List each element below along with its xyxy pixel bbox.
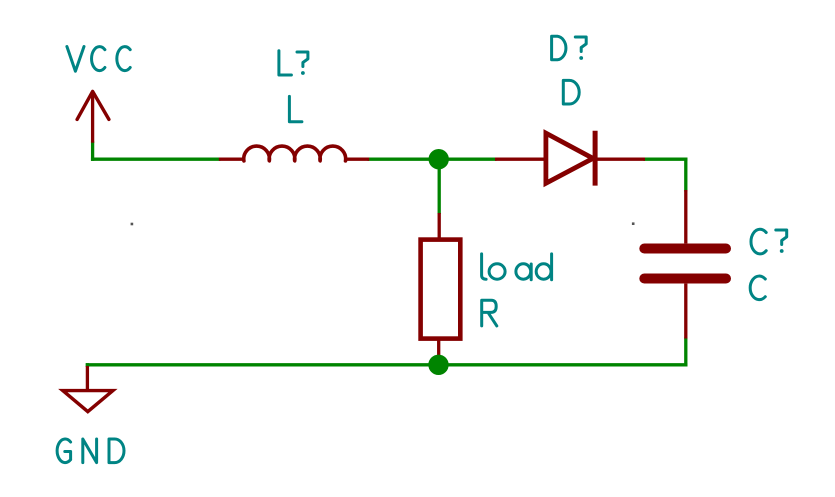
net label GND [57, 439, 124, 463]
resistor load/R pin 2 (bottom) [437, 337, 440, 365]
label D (value) [563, 80, 579, 104]
label C (value) [750, 276, 765, 300]
resistor load/R body [421, 240, 461, 339]
inductor L? coil [244, 146, 346, 161]
junction node bottom [428, 355, 448, 375]
anchor mark right [632, 222, 635, 225]
wire [684, 338, 687, 367]
wire [86, 363, 688, 366]
capacitor C? pin 2 (bottom) [684, 284, 687, 339]
label C? (reference) [751, 229, 787, 254]
wire [91, 142, 94, 161]
diode D? pin 2 (cathode side) [595, 158, 645, 161]
diode D? triangle [546, 133, 593, 183]
label D? (reference) [552, 36, 587, 60]
power symbol GND [63, 366, 113, 412]
wire [644, 158, 688, 161]
wire [368, 158, 497, 161]
net label VCC [67, 47, 130, 72]
anchor mark left [131, 223, 134, 226]
inductor L? pin 2 [346, 158, 370, 161]
label R (value) [482, 300, 497, 326]
label L? (reference) [279, 51, 308, 75]
label L (value) [289, 96, 302, 121]
resistor load/R pin 1 (top) [438, 213, 441, 241]
junction node top [429, 149, 449, 169]
wire [438, 159, 441, 214]
wire [86, 363, 89, 367]
capacitor C? top plate [644, 244, 726, 254]
wire [91, 158, 221, 161]
diode D? cathode bar [593, 131, 598, 186]
diode D? pin 1 (anode side) [495, 158, 546, 161]
capacitor C? pin 1 (top) [684, 190, 687, 243]
label load (reference) [482, 254, 552, 280]
capacitor C? bottom plate [644, 274, 726, 284]
power symbol VCC (arrow) [77, 91, 109, 143]
wire [684, 158, 687, 192]
inductor L? pin 1 [219, 158, 244, 161]
